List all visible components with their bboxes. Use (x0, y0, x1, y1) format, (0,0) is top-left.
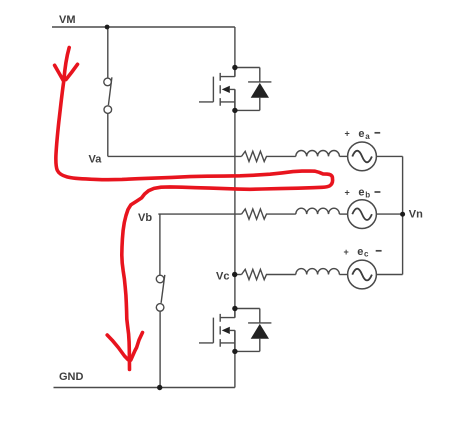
svg-text:+: + (345, 188, 350, 198)
svg-text:GND: GND (59, 371, 84, 383)
svg-text:+: + (345, 129, 350, 139)
svg-text:Vn: Vn (409, 209, 423, 221)
svg-text:Vc: Vc (216, 271, 229, 283)
svg-text:VM: VM (59, 14, 76, 26)
svg-text:Va: Va (89, 153, 103, 165)
svg-text:Vb: Vb (138, 212, 152, 224)
svg-text:a: a (365, 132, 370, 141)
svg-text:e: e (357, 246, 363, 258)
svg-text:+: + (344, 247, 349, 257)
svg-text:b: b (365, 191, 370, 200)
svg-text:e: e (358, 187, 364, 199)
svg-text:e: e (358, 128, 364, 140)
svg-text:c: c (364, 250, 369, 259)
